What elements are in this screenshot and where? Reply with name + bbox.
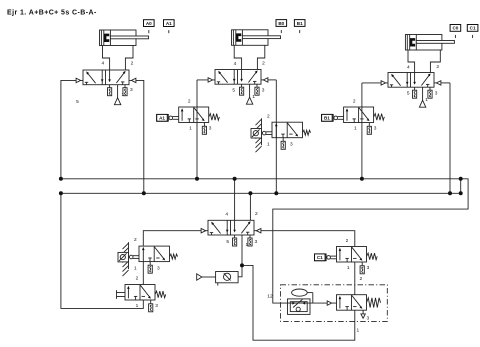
svg-text:2: 2 [436, 64, 439, 70]
svg-text:A1: A1 [159, 116, 165, 121]
svg-text:4: 4 [234, 61, 237, 67]
svg-text:5: 5 [407, 91, 410, 97]
svg-text:1: 1 [267, 141, 270, 147]
svg-text:C1: C1 [470, 26, 476, 31]
svg-text:2: 2 [262, 61, 265, 67]
svg-text:5: 5 [232, 87, 235, 93]
svg-text:Ejr 1. A+B+C+ 5s C-B-A-: Ejr 1. A+B+C+ 5s C-B-A- [7, 10, 97, 17]
svg-text:3: 3 [290, 141, 293, 147]
svg-text:2: 2 [136, 276, 139, 282]
svg-text:3: 3 [157, 265, 160, 271]
svg-text:2: 2 [346, 238, 349, 244]
svg-text:2: 2 [131, 61, 134, 67]
svg-text:5: 5 [76, 99, 79, 105]
svg-text:4: 4 [407, 65, 410, 71]
svg-text:3: 3 [255, 239, 258, 245]
svg-text:3: 3 [155, 303, 158, 309]
svg-text:1: 1 [425, 97, 428, 103]
svg-text:2: 2 [255, 211, 258, 217]
svg-text:2: 2 [134, 237, 137, 243]
svg-text:1: 1 [246, 242, 249, 248]
svg-text:3: 3 [367, 265, 370, 271]
svg-text:1: 1 [136, 303, 139, 309]
svg-text:5: 5 [226, 239, 229, 245]
svg-text:1: 1 [189, 126, 192, 132]
svg-text:3: 3 [130, 87, 133, 93]
svg-text:1: 1 [357, 328, 360, 334]
svg-text:3: 3 [374, 126, 377, 132]
svg-text:4: 4 [225, 212, 228, 218]
svg-text:2: 2 [188, 99, 191, 105]
svg-text:B1: B1 [324, 116, 330, 121]
svg-text:1: 1 [354, 126, 357, 132]
svg-text:3: 3 [435, 91, 438, 97]
svg-text:B1: B1 [297, 21, 303, 26]
svg-text:3: 3 [209, 126, 212, 132]
svg-text:2: 2 [360, 276, 363, 282]
svg-text:A0: A0 [146, 21, 152, 26]
svg-text:3: 3 [367, 316, 370, 322]
svg-text:1: 1 [252, 94, 255, 100]
svg-text:B0: B0 [278, 21, 284, 26]
svg-text:A1: A1 [166, 21, 172, 26]
svg-text:3: 3 [262, 87, 265, 93]
svg-text:4: 4 [101, 60, 104, 66]
svg-text:C1: C1 [317, 255, 323, 260]
svg-text:12: 12 [267, 294, 273, 300]
svg-text:1: 1 [122, 92, 125, 98]
svg-text:C0: C0 [452, 26, 458, 31]
svg-text:1: 1 [347, 265, 350, 271]
svg-text:1: 1 [134, 265, 137, 271]
svg-text:2: 2 [267, 113, 270, 119]
svg-text:2: 2 [353, 99, 356, 105]
